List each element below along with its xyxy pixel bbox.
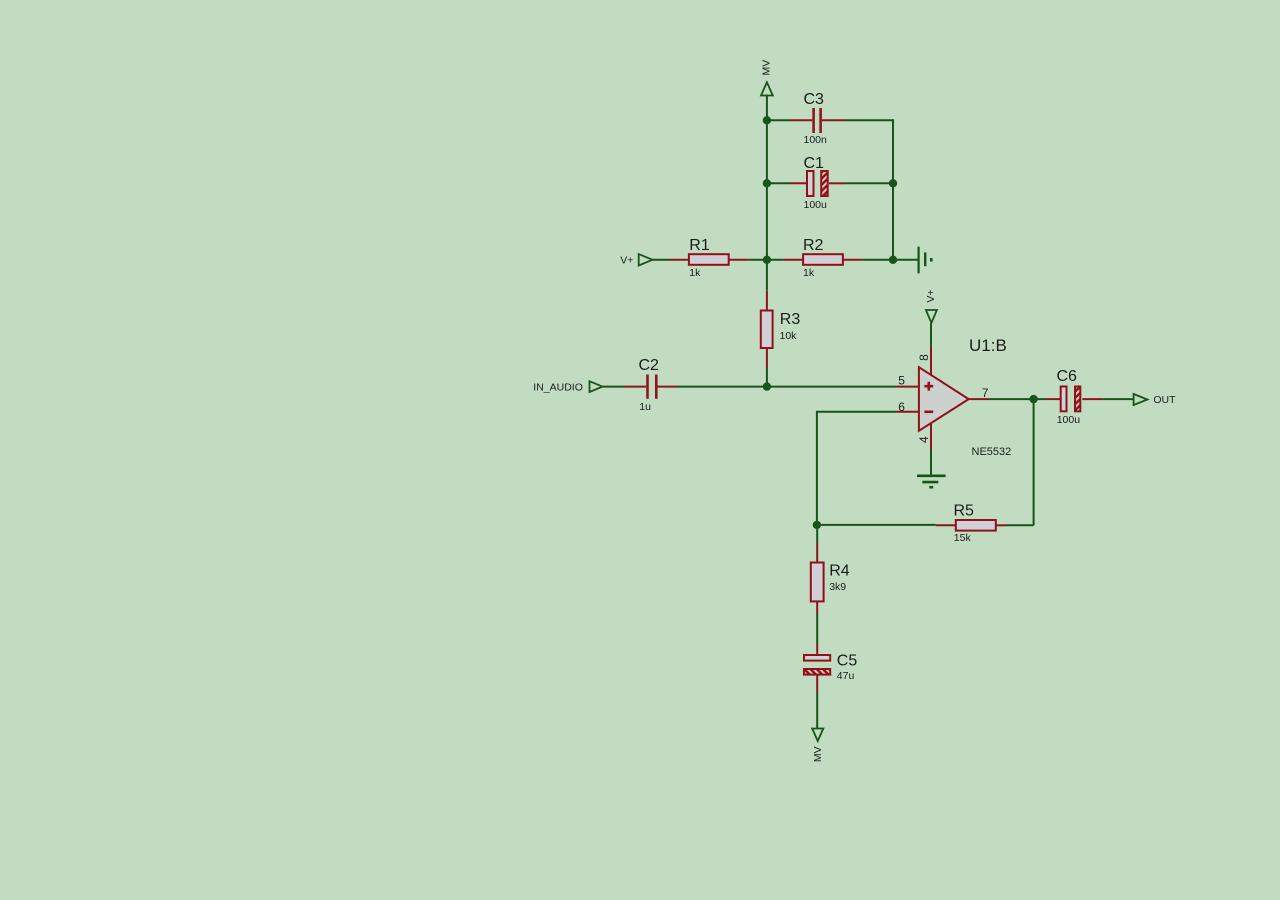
pin R5 left (maroon) — [936, 524, 956, 526]
power terminal MV (bottom) — [812, 729, 823, 742]
power terminal V+ (op-amp supply) — [926, 310, 937, 323]
wire MV column vertical (x=767) — [766, 95, 768, 291]
wire C1 left stub green — [767, 182, 791, 184]
svg-text:3k9: 3k9 — [829, 581, 846, 593]
wire pin 7 to output node — [990, 398, 1047, 400]
pin C5 bottom (maroon) — [816, 676, 818, 693]
pin C6 right (maroon) — [1082, 398, 1102, 400]
svg-text:1k: 1k — [803, 267, 815, 279]
svg-text:C1: C1 — [804, 155, 825, 172]
wire output node down to R5 — [1033, 399, 1035, 525]
svg-text:IN_AUDIO: IN_AUDIO — [533, 381, 583, 393]
resistor R3 — [761, 311, 773, 349]
svg-text:MV: MV — [812, 746, 824, 762]
svg-text:V+: V+ — [925, 290, 937, 303]
op-amp U1:B — [919, 367, 969, 431]
pin 4 stub (maroon) — [930, 424, 932, 449]
svg-text:C6: C6 — [1057, 368, 1078, 385]
wire right column vertical (x=893) — [892, 119, 894, 261]
resistor R2 — [803, 254, 843, 265]
pin C2 left (maroon) — [624, 386, 646, 388]
ground (right of R2, rotated) — [919, 247, 932, 274]
pin C1 left (maroon) — [791, 182, 808, 184]
pin R1 left (maroon) — [669, 259, 689, 261]
svg-text:U1:B: U1:B — [969, 336, 1007, 355]
capacitor C6 (polarized) — [1061, 387, 1081, 412]
pin 7 stub (maroon) — [969, 398, 990, 400]
resistor R5 — [956, 520, 996, 531]
pin R2 right (maroon) — [843, 259, 863, 261]
pin C3 left (maroon) — [791, 119, 813, 121]
pin R3 top (maroon) — [766, 291, 768, 311]
pin C6 left (maroon) — [1046, 398, 1060, 400]
junction node MV/C3 — [763, 116, 771, 124]
svg-text:R1: R1 — [689, 237, 710, 254]
pin 5 stub (maroon) — [896, 386, 918, 388]
capacitor C2 — [648, 375, 657, 399]
svg-text:100n: 100n — [804, 134, 828, 146]
wire C3 right to right column — [845, 119, 893, 121]
pin R5 right (maroon) — [996, 524, 1006, 526]
junction node feedback — [813, 521, 821, 529]
svg-text:100u: 100u — [804, 199, 828, 211]
svg-text:R4: R4 — [829, 563, 850, 580]
capacitor C5 (polarized) — [804, 655, 830, 675]
svg-text:MV: MV — [760, 60, 772, 76]
power terminal MV (top) — [761, 82, 773, 95]
svg-text:7: 7 — [982, 386, 989, 400]
input terminal IN_AUDIO — [590, 381, 603, 392]
pin R2 left (maroon) — [783, 259, 803, 261]
resistor R4 — [811, 563, 824, 602]
junction node R1/R2/R3 — [763, 256, 771, 264]
wire IN_AUDIO to C2 — [603, 386, 625, 388]
svg-text:C2: C2 — [639, 357, 660, 374]
ground (op-amp pin 4) — [917, 476, 946, 487]
pin R1 right (maroon) — [729, 259, 749, 261]
wire V+ terminal to pin 8 — [930, 323, 932, 346]
svg-text:R2: R2 — [803, 237, 824, 254]
wire R1 to R2 through node — [749, 259, 783, 261]
svg-text:6: 6 — [898, 400, 905, 414]
pin R4 top (maroon) — [816, 543, 818, 564]
junction node C2/R3/pin5 — [763, 382, 771, 390]
wire C1 right to right column — [845, 182, 893, 184]
wire R2 to ground — [863, 259, 918, 261]
wire pin 4 to ground — [930, 449, 932, 475]
svg-text:R3: R3 — [780, 311, 801, 328]
junction node C1 right — [889, 179, 897, 187]
svg-text:NE5532: NE5532 — [972, 446, 1012, 458]
wire V+ to R1 — [653, 259, 670, 261]
pin C3 right (maroon) — [822, 119, 845, 121]
pin C1 right (maroon) — [829, 182, 845, 184]
pin C5 top (maroon) — [816, 644, 818, 654]
wire op-amp pin 6 to feedback node — [817, 412, 897, 525]
wire feedback node to R5 — [817, 524, 936, 526]
pin R4 bottom (maroon) — [816, 601, 818, 614]
wire R5 to output column — [1006, 524, 1034, 526]
svg-text:C3: C3 — [804, 91, 825, 108]
svg-text:R5: R5 — [954, 503, 975, 520]
pin R3 bottom (maroon) — [766, 348, 768, 368]
svg-text:V+: V+ — [620, 254, 633, 266]
wire feedback node down to R4 — [816, 525, 818, 543]
input terminal V+ — [639, 254, 653, 265]
svg-text:5: 5 — [898, 374, 905, 388]
junction node MV/C1 — [763, 179, 771, 187]
svg-text:1k: 1k — [689, 267, 701, 279]
svg-text:100u: 100u — [1057, 414, 1081, 426]
pin C2 right (maroon) — [658, 386, 678, 388]
capacitor C1 (polarized) — [807, 171, 828, 196]
wire C6 to OUT — [1102, 398, 1133, 400]
resistor R1 — [689, 254, 729, 265]
svg-text:47u: 47u — [837, 670, 855, 682]
junction node output — [1029, 395, 1037, 403]
pin 8 stub (maroon) — [930, 346, 932, 375]
wire C3 left stub green — [767, 119, 791, 121]
wire C2 to op-amp pin 5 — [678, 386, 897, 388]
svg-text:OUT: OUT — [1153, 394, 1176, 406]
wire R3 to input net — [766, 368, 768, 388]
svg-text:8: 8 — [917, 354, 931, 361]
svg-text:15k: 15k — [954, 532, 972, 544]
output terminal OUT — [1134, 394, 1148, 405]
svg-text:4: 4 — [917, 436, 931, 443]
svg-text:10k: 10k — [780, 330, 798, 342]
wire R4 to C5 — [816, 614, 818, 644]
capacitor C3 — [814, 108, 821, 133]
svg-text:1u: 1u — [639, 401, 651, 413]
junction node R2/ground — [889, 256, 897, 264]
wire C5 to MV terminal — [816, 692, 818, 729]
svg-text:C5: C5 — [837, 653, 858, 670]
pin 6 stub (maroon) — [896, 411, 918, 413]
